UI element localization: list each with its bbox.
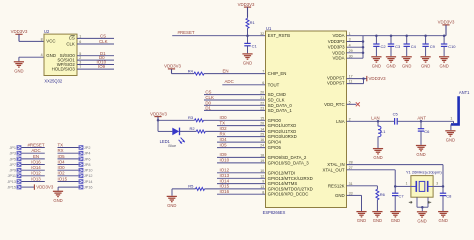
header pin JP15 — [7, 185, 34, 190]
svg-text:32: 32 — [260, 32, 264, 36]
header pin JP9 — [9, 168, 44, 173]
net label IO15 — [220, 184, 230, 189]
header pin JP6 — [58, 157, 91, 162]
crystal Y1 26MHz — [406, 169, 442, 211]
pin 21 SD_CLK — [260, 96, 284, 102]
pin 1 VDDA — [333, 32, 351, 38]
ground (C8) — [438, 212, 448, 224]
svg-text:4: 4 — [349, 43, 351, 47]
net label IO9 — [98, 64, 106, 69]
pin 29 VDDD — [332, 49, 352, 55]
resistor R4 — [172, 68, 266, 75]
wire net IO16 — [217, 193, 266, 195]
header pin JP2 — [58, 145, 91, 150]
pin 8 GPIO16/XPD_DCDC — [262, 190, 308, 196]
pin 26 GPIO1/U0TXD — [260, 122, 296, 128]
net label TX — [58, 142, 64, 147]
svg-text:ADC: ADC — [225, 79, 234, 84]
svg-text:IO16: IO16 — [220, 189, 230, 194]
svg-text:RX: RX — [220, 131, 226, 136]
svg-text:ESP8266EX: ESP8266EX — [263, 210, 286, 215]
net label TX — [220, 120, 226, 125]
net label IO10 — [97, 60, 107, 65]
svg-text:GPIO4: GPIO4 — [268, 140, 282, 145]
net label IO13 — [31, 176, 41, 181]
svg-text:JP13: JP13 — [7, 180, 16, 184]
svg-text:EN: EN — [223, 68, 229, 73]
power flag VDD3V3 (LED / IO0 pull-up) — [150, 111, 167, 120]
svg-text:VDD3V3: VDD3V3 — [438, 20, 455, 25]
svg-text:XTAL_OUT: XTAL_OUT — [322, 167, 344, 172]
svg-text:VDD3V3: VDD3V3 — [369, 76, 387, 81]
ground (R6) — [372, 212, 382, 224]
svg-text:VDD3V3: VDD3V3 — [164, 64, 181, 69]
svg-text:GPIO0: GPIO0 — [268, 118, 282, 123]
node IO0 junction — [157, 119, 160, 122]
capacitor C2 — [373, 34, 386, 56]
svg-text:7: 7 — [262, 70, 264, 74]
resistor R5 — [172, 184, 266, 191]
svg-text:GND: GND — [416, 152, 425, 157]
svg-text:11: 11 — [349, 79, 353, 83]
wire power pins to rail — [347, 36, 365, 59]
svg-text:VDD3P3: VDD3P3 — [328, 45, 345, 50]
ground (flash) — [14, 62, 24, 74]
svg-text:Y1 26MHz(±10ppm): Y1 26MHz(±10ppm) — [406, 169, 442, 174]
svg-text:CS: CS — [205, 90, 211, 95]
pin 19 GPIO10/SD_DATA_3 — [260, 159, 309, 165]
svg-text:IO15: IO15 — [220, 184, 230, 189]
wire SD net D1 — [204, 109, 266, 111]
svg-text:15: 15 — [260, 116, 264, 120]
svg-text:SD_DATA_1: SD_DATA_1 — [268, 108, 293, 113]
capacitor C10 — [441, 34, 456, 56]
flash U2 XX25Q32 — [44, 29, 77, 83]
svg-text:VDD3P3: VDD3P3 — [328, 39, 345, 44]
pin 28 XTAL_IN — [327, 161, 352, 167]
svg-text:10: 10 — [260, 169, 264, 173]
net label CLK — [99, 39, 108, 44]
ground (C3) — [386, 57, 396, 69]
svg-text:GND: GND — [439, 63, 448, 68]
pin 30 VDDA — [333, 54, 353, 60]
pin 12 GPIO13/MTCK/U2RXD — [260, 174, 313, 180]
ground (C1) — [242, 54, 252, 66]
wire XTAL_OUT — [347, 170, 397, 188]
net label IO14 — [220, 178, 230, 183]
ground (R5) — [167, 196, 177, 208]
svg-text:GND: GND — [46, 53, 56, 58]
net label IO10 — [220, 158, 230, 163]
svg-text:C3: C3 — [395, 44, 401, 49]
net label IO14 — [31, 165, 41, 170]
wire flash VCC pin 8 — [19, 37, 44, 41]
header pin JP10 — [58, 168, 93, 173]
svg-text:C9: C9 — [430, 44, 436, 49]
svg-text:C7: C7 — [399, 194, 405, 199]
svg-text:IO2: IO2 — [58, 171, 66, 176]
svg-text:GND: GND — [372, 63, 381, 68]
wire LNA — [347, 120, 380, 123]
pin 33 GND — [335, 192, 353, 198]
wire flash pin 2 / net D0 — [77, 56, 114, 60]
ground (C9) — [421, 57, 431, 69]
svg-text:3: 3 — [79, 61, 81, 65]
svg-text:CS: CS — [100, 34, 106, 39]
svg-text:C2: C2 — [381, 44, 387, 49]
svg-text:SD_CMD: SD_CMD — [268, 92, 286, 97]
svg-text:RES12K: RES12K — [328, 183, 345, 188]
capacitor C8 — [440, 186, 452, 211]
svg-text:C8: C8 — [446, 194, 452, 199]
net label IO15 — [58, 176, 68, 181]
ground (C4) — [402, 57, 412, 69]
capacitor C1 — [244, 36, 257, 54]
svg-text:C6: C6 — [424, 129, 430, 134]
svg-text:GND: GND — [439, 218, 448, 223]
svg-text:GND: GND — [243, 61, 252, 66]
svg-text:JP5: JP5 — [9, 157, 16, 161]
svg-text:7: 7 — [79, 65, 81, 69]
svg-text:JP1: JP1 — [9, 146, 16, 150]
svg-text:VDD_RTC: VDD_RTC — [324, 102, 344, 107]
svg-text:8: 8 — [262, 190, 264, 194]
pin 20 SD_CMD — [260, 91, 286, 97]
svg-text:14: 14 — [260, 128, 264, 132]
wire net IO14 — [217, 183, 266, 185]
svg-text:28: 28 — [349, 161, 353, 165]
svg-text:IO16: IO16 — [31, 159, 41, 164]
pin 10 GPIO12/MTDI — [260, 169, 295, 175]
svg-text:IO4: IO4 — [58, 159, 66, 164]
svg-text:JP2: JP2 — [84, 146, 91, 150]
svg-text:R3: R3 — [188, 115, 194, 120]
svg-text:IO5: IO5 — [220, 142, 228, 147]
resistor R2 — [179, 126, 265, 133]
wire SD net CS — [204, 94, 266, 96]
header pin JP4 — [58, 151, 91, 156]
svg-text:IO13: IO13 — [220, 173, 230, 178]
wire XTAL_IN — [347, 165, 445, 188]
svg-text:L1: L1 — [381, 129, 386, 134]
svg-text:GND: GND — [446, 137, 455, 142]
pin 18 GPIO9/SD_DATA_2 — [260, 154, 307, 160]
svg-text:GND: GND — [335, 193, 345, 198]
svg-text:GND: GND — [421, 63, 430, 68]
svg-text:Blue: Blue — [168, 143, 176, 148]
wire net RX — [217, 136, 266, 138]
svg-text:D1: D1 — [205, 105, 211, 110]
node ANT — [420, 120, 423, 123]
svg-text:JP16: JP16 — [84, 186, 93, 190]
svg-text:C4: C4 — [411, 44, 417, 49]
svg-text:GND: GND — [373, 218, 382, 223]
net label IO16 — [220, 189, 230, 194]
svg-text:GPIO10/SD_DATA_3: GPIO10/SD_DATA_3 — [268, 160, 310, 165]
wire VDD3V3 rail — [363, 35, 446, 37]
svg-text:IO0: IO0 — [58, 165, 66, 170]
capacitor C3 — [388, 34, 401, 56]
ground (C2) — [371, 57, 381, 69]
svg-text:TOUT: TOUT — [268, 82, 280, 87]
pin 16 GPIO4 — [260, 138, 281, 144]
svg-text:TX: TX — [58, 142, 64, 147]
svg-text:#RESET: #RESET — [27, 142, 44, 147]
svg-text:VDDD: VDDD — [332, 50, 344, 55]
svg-text:JP10: JP10 — [84, 169, 93, 173]
svg-text:IO13: IO13 — [31, 176, 41, 181]
wire VDD_RTC — [347, 103, 357, 105]
resistor R1 — [246, 17, 255, 35]
wire net IO9 — [217, 156, 266, 158]
svg-text:U2: U2 — [44, 29, 50, 34]
svg-text:IO9: IO9 — [98, 64, 106, 69]
pin 13 GPIO15/MTDO/U2TXD — [260, 185, 313, 191]
svg-text:JP3: JP3 — [9, 152, 16, 156]
svg-text:GPIO1/U0TXD: GPIO1/U0TXD — [268, 123, 297, 128]
net label IO4 — [58, 159, 66, 164]
svg-text:CLK: CLK — [66, 41, 75, 46]
svg-text:GND: GND — [167, 203, 176, 208]
svg-text:23: 23 — [260, 107, 264, 111]
svg-text:22: 22 — [260, 101, 264, 105]
svg-text:18: 18 — [260, 154, 264, 158]
power port VDD3V3 (JP15) — [34, 184, 53, 189]
power flag VDD3V3 (reset pull-up) — [238, 2, 255, 17]
svg-text:33: 33 — [349, 192, 353, 196]
svg-text:VDD3V3: VDD3V3 — [11, 29, 28, 34]
svg-text:C10: C10 — [448, 44, 456, 49]
svg-text:EXT_RSTB: EXT_RSTB — [268, 33, 291, 38]
ground (L1) — [373, 149, 383, 161]
header pin JP14 — [58, 179, 93, 184]
wire #RESET — [172, 35, 265, 37]
net label IO4 — [220, 137, 228, 142]
svg-text:GPIO12/MTDI: GPIO12/MTDI — [268, 170, 296, 175]
svg-text:#RESET: #RESET — [178, 30, 195, 35]
net label #RESET — [27, 142, 44, 147]
svg-text:R4: R4 — [188, 68, 194, 73]
wire net IO5 — [217, 147, 266, 149]
header pin JP1 — [9, 145, 44, 150]
inductor L1 — [378, 121, 386, 148]
capacitor C7 — [392, 186, 404, 211]
wire crystal left — [395, 181, 411, 186]
wire flash pin 7 / net IO9 — [77, 65, 114, 69]
wire SD net CLK — [204, 99, 266, 101]
ground (C7) — [390, 212, 400, 224]
svg-text:TX: TX — [220, 120, 226, 125]
net label CS — [205, 90, 211, 95]
svg-text:17: 17 — [349, 74, 353, 78]
capacitor C6 — [418, 121, 430, 145]
net label IO12 — [31, 171, 41, 176]
net label IO0 — [58, 165, 66, 170]
svg-text:ANT: ANT — [417, 116, 426, 121]
net label D1 — [100, 51, 106, 56]
pin 15 GPIO0 — [260, 116, 281, 122]
header pin JP13 — [7, 179, 44, 184]
capacitor C5 — [378, 111, 421, 124]
svg-text:JP9: JP9 — [9, 169, 16, 173]
svg-text:R2: R2 — [190, 126, 196, 131]
svg-text:IO12: IO12 — [31, 171, 41, 176]
svg-text:25: 25 — [260, 133, 264, 137]
svg-text:16: 16 — [260, 138, 264, 142]
svg-text:JP11: JP11 — [8, 174, 16, 178]
svg-text:C5: C5 — [393, 111, 399, 116]
svg-text:31: 31 — [349, 182, 353, 186]
svg-text:GPIO14/MTMS: GPIO14/MTMS — [268, 181, 298, 186]
svg-text:R6: R6 — [380, 192, 386, 197]
svg-text:JP6: JP6 — [84, 157, 91, 161]
svg-text:12: 12 — [260, 174, 264, 178]
svg-text:3: 3 — [436, 181, 438, 185]
pin 11 VDDPST — [327, 79, 352, 85]
svg-text:ANT1: ANT1 — [459, 90, 470, 95]
svg-text:6: 6 — [79, 40, 81, 44]
svg-text:IO10: IO10 — [220, 158, 230, 163]
svg-text:RX: RX — [58, 148, 64, 153]
pin 27 XTAL_OUT — [322, 166, 352, 172]
net label IO5 — [58, 154, 66, 159]
wire SD net D0 — [204, 104, 266, 106]
svg-text:GND: GND — [386, 63, 395, 68]
svg-text:LAN: LAN — [371, 116, 379, 121]
pin 4 VDD3P3 — [328, 43, 351, 49]
power port VDD3V3 (VDDPST) — [367, 76, 386, 81]
pin 14 GPIO2/U1TXD — [260, 128, 296, 134]
svg-text:JP4: JP4 — [84, 152, 91, 156]
net label ADC — [225, 79, 234, 84]
svg-text:CLK: CLK — [99, 39, 108, 44]
svg-text:JP12: JP12 — [84, 174, 93, 178]
svg-text:GND: GND — [373, 155, 382, 160]
svg-text:VCC: VCC — [46, 39, 55, 44]
svg-text:27: 27 — [349, 166, 353, 170]
header pin JP3 — [9, 151, 44, 156]
pin 3 VDD3P3 — [328, 38, 351, 44]
svg-text:IO9: IO9 — [220, 152, 228, 157]
svg-text:4: 4 — [41, 53, 43, 57]
op-amp U1 ESP8266EX body — [263, 26, 347, 215]
svg-text:VDDA: VDDA — [333, 56, 345, 61]
ground (ANT1) — [445, 131, 455, 143]
svg-text:SD_CLK: SD_CLK — [268, 98, 285, 103]
svg-text:VDD3V3: VDD3V3 — [150, 111, 167, 116]
wire VDDPST pins — [347, 77, 367, 83]
svg-text:29: 29 — [349, 49, 353, 53]
svg-text:R1: R1 — [250, 20, 256, 25]
svg-text:R5: R5 — [188, 184, 194, 189]
svg-text:24: 24 — [260, 144, 264, 148]
pin 9 GPIO14/MTMS — [262, 180, 297, 186]
pin 23 SD_DATA_1 — [260, 107, 292, 113]
header pin JP5 — [9, 157, 44, 162]
svg-text:IO14: IO14 — [220, 178, 230, 183]
wire flash pin 3 / net IO10 — [77, 61, 114, 65]
svg-text:GPIO5: GPIO5 — [268, 145, 282, 150]
wire net IO4 — [217, 141, 266, 143]
svg-text:GND: GND — [53, 198, 62, 203]
wire net IO12 — [217, 172, 266, 174]
net label RX — [220, 131, 226, 136]
header pin JP12 — [58, 174, 93, 179]
svg-text:JP8: JP8 — [84, 163, 91, 167]
capacitor C9 — [422, 34, 435, 56]
net label IO12 — [220, 168, 230, 173]
svg-text:IO14: IO14 — [31, 165, 41, 170]
net label CLK — [205, 95, 214, 100]
pin 17 VDDPST — [327, 74, 353, 80]
svg-text:GPIO13/MTCK/U2RXD: GPIO13/MTCK/U2RXD — [268, 176, 313, 181]
wire VDD to LED row — [157, 120, 159, 131]
header pin JP16 — [79, 185, 93, 190]
svg-text:VDD3V3: VDD3V3 — [36, 185, 54, 190]
net label EN — [223, 68, 229, 73]
svg-text:CS: CS — [69, 36, 75, 41]
svg-text:30: 30 — [349, 54, 353, 58]
svg-text:JP15: JP15 — [7, 186, 16, 190]
svg-text:GPIO15/MTDO/U2TXD: GPIO15/MTDO/U2TXD — [268, 186, 313, 191]
net label EN — [33, 154, 39, 159]
svg-text:U1: U1 — [266, 26, 272, 31]
pin 22 SD_DATA_0 — [260, 101, 292, 107]
net label IO2 — [58, 171, 66, 176]
wire crystal right — [433, 181, 443, 186]
capacitor C4 — [404, 34, 417, 56]
ground (Y1) — [417, 212, 427, 224]
svg-text:IO15: IO15 — [58, 176, 68, 181]
svg-text:IO5: IO5 — [58, 154, 66, 159]
pin 2 LNA — [336, 117, 350, 123]
resistor R6 — [347, 186, 386, 211]
wire GND pin 33 — [347, 195, 362, 211]
ground (C10) — [439, 57, 449, 69]
net label ANT — [417, 116, 426, 121]
svg-text:1: 1 — [450, 116, 452, 120]
svg-text:IO12: IO12 — [220, 168, 230, 173]
net label IO16 — [31, 159, 41, 164]
pin 32 EXT_RSTB — [260, 32, 290, 38]
svg-text:6: 6 — [262, 81, 264, 85]
svg-text:1: 1 — [79, 35, 81, 39]
wire net IO13 — [217, 177, 266, 179]
svg-text:GPIO16/XPD_DCDC: GPIO16/XPD_DCDC — [268, 192, 309, 197]
net label IO5 — [220, 142, 228, 147]
svg-text:HOLD/SIO3: HOLD/SIO3 — [52, 66, 76, 71]
svg-text:3: 3 — [349, 38, 351, 42]
header pin JP8 — [58, 162, 91, 167]
svg-text:JP7: JP7 — [9, 163, 16, 167]
svg-text:JP14: JP14 — [84, 180, 93, 184]
svg-text:VDD3V3: VDD3V3 — [238, 2, 255, 7]
svg-text:GND: GND — [357, 218, 366, 223]
wire net IO10 — [217, 162, 266, 164]
no-connect X (VDD_RTC) — [356, 102, 360, 106]
power flag VDD3V3 (rail) — [438, 20, 455, 36]
pin 24 GPIO5 — [260, 144, 281, 150]
svg-text:9: 9 — [262, 180, 264, 184]
svg-text:C1: C1 — [252, 44, 258, 49]
svg-text:LNA: LNA — [336, 119, 345, 124]
wire JP16 to ground — [58, 187, 79, 191]
svg-text:13: 13 — [260, 185, 264, 189]
svg-text:CLK: CLK — [205, 95, 214, 100]
header pin JP7 — [9, 162, 44, 167]
net label IO9 — [220, 152, 228, 157]
svg-text:26: 26 — [260, 122, 264, 126]
